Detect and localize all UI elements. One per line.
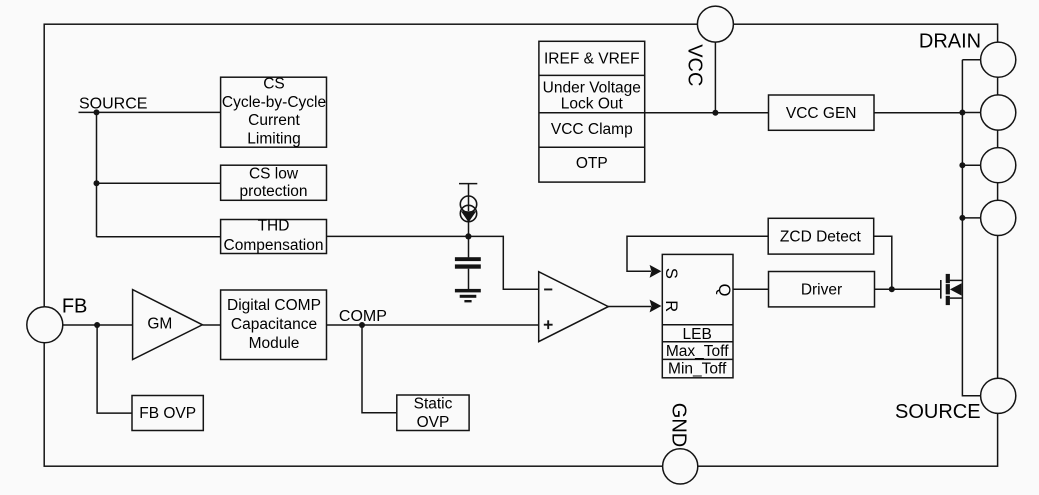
- svg-text:SOURCE: SOURCE: [895, 401, 981, 423]
- svg-text:Q: Q: [715, 284, 733, 297]
- svg-text:protection: protection: [239, 183, 307, 200]
- svg-text:FB: FB: [62, 295, 88, 317]
- svg-text:IREF & VREF: IREF & VREF: [544, 51, 640, 68]
- svg-text:OTP: OTP: [576, 155, 608, 172]
- svg-text:VCC GEN: VCC GEN: [786, 105, 857, 122]
- svg-text:Module: Module: [249, 335, 300, 352]
- svg-text:THD: THD: [258, 217, 290, 234]
- svg-text:Current: Current: [248, 112, 300, 129]
- svg-text:Compensation: Compensation: [224, 237, 324, 254]
- svg-text:R: R: [662, 300, 680, 312]
- svg-text:Max_Toff: Max_Toff: [666, 343, 729, 360]
- svg-text:Driver: Driver: [801, 281, 842, 298]
- svg-text:CS: CS: [263, 75, 285, 92]
- svg-text:FB OVP: FB OVP: [139, 405, 196, 422]
- svg-text:COMP: COMP: [339, 308, 387, 325]
- svg-text:Digital COMP: Digital COMP: [227, 297, 321, 314]
- svg-text:Capacitance: Capacitance: [231, 316, 317, 333]
- svg-text:S: S: [662, 268, 680, 279]
- svg-text:VCC: VCC: [684, 44, 706, 86]
- svg-text:GM: GM: [147, 316, 172, 333]
- svg-text:CS low: CS low: [249, 165, 299, 182]
- svg-text:DRAIN: DRAIN: [919, 31, 981, 53]
- svg-text:SOURCE: SOURCE: [79, 95, 147, 112]
- svg-text:OVP: OVP: [417, 414, 450, 431]
- svg-text:VCC Clamp: VCC Clamp: [551, 121, 633, 138]
- svg-text:Lock Out: Lock Out: [561, 95, 624, 112]
- svg-text:ZCD Detect: ZCD Detect: [780, 229, 862, 246]
- svg-text:Limiting: Limiting: [247, 131, 300, 148]
- svg-text:Cycle-by-Cycle: Cycle-by-Cycle: [222, 94, 326, 111]
- svg-text:LEB: LEB: [683, 326, 712, 343]
- svg-text:Static: Static: [414, 395, 453, 412]
- svg-text:Under Voltage: Under Voltage: [543, 80, 641, 97]
- svg-text:Min_Toff: Min_Toff: [668, 361, 727, 378]
- svg-text:GND: GND: [667, 403, 689, 447]
